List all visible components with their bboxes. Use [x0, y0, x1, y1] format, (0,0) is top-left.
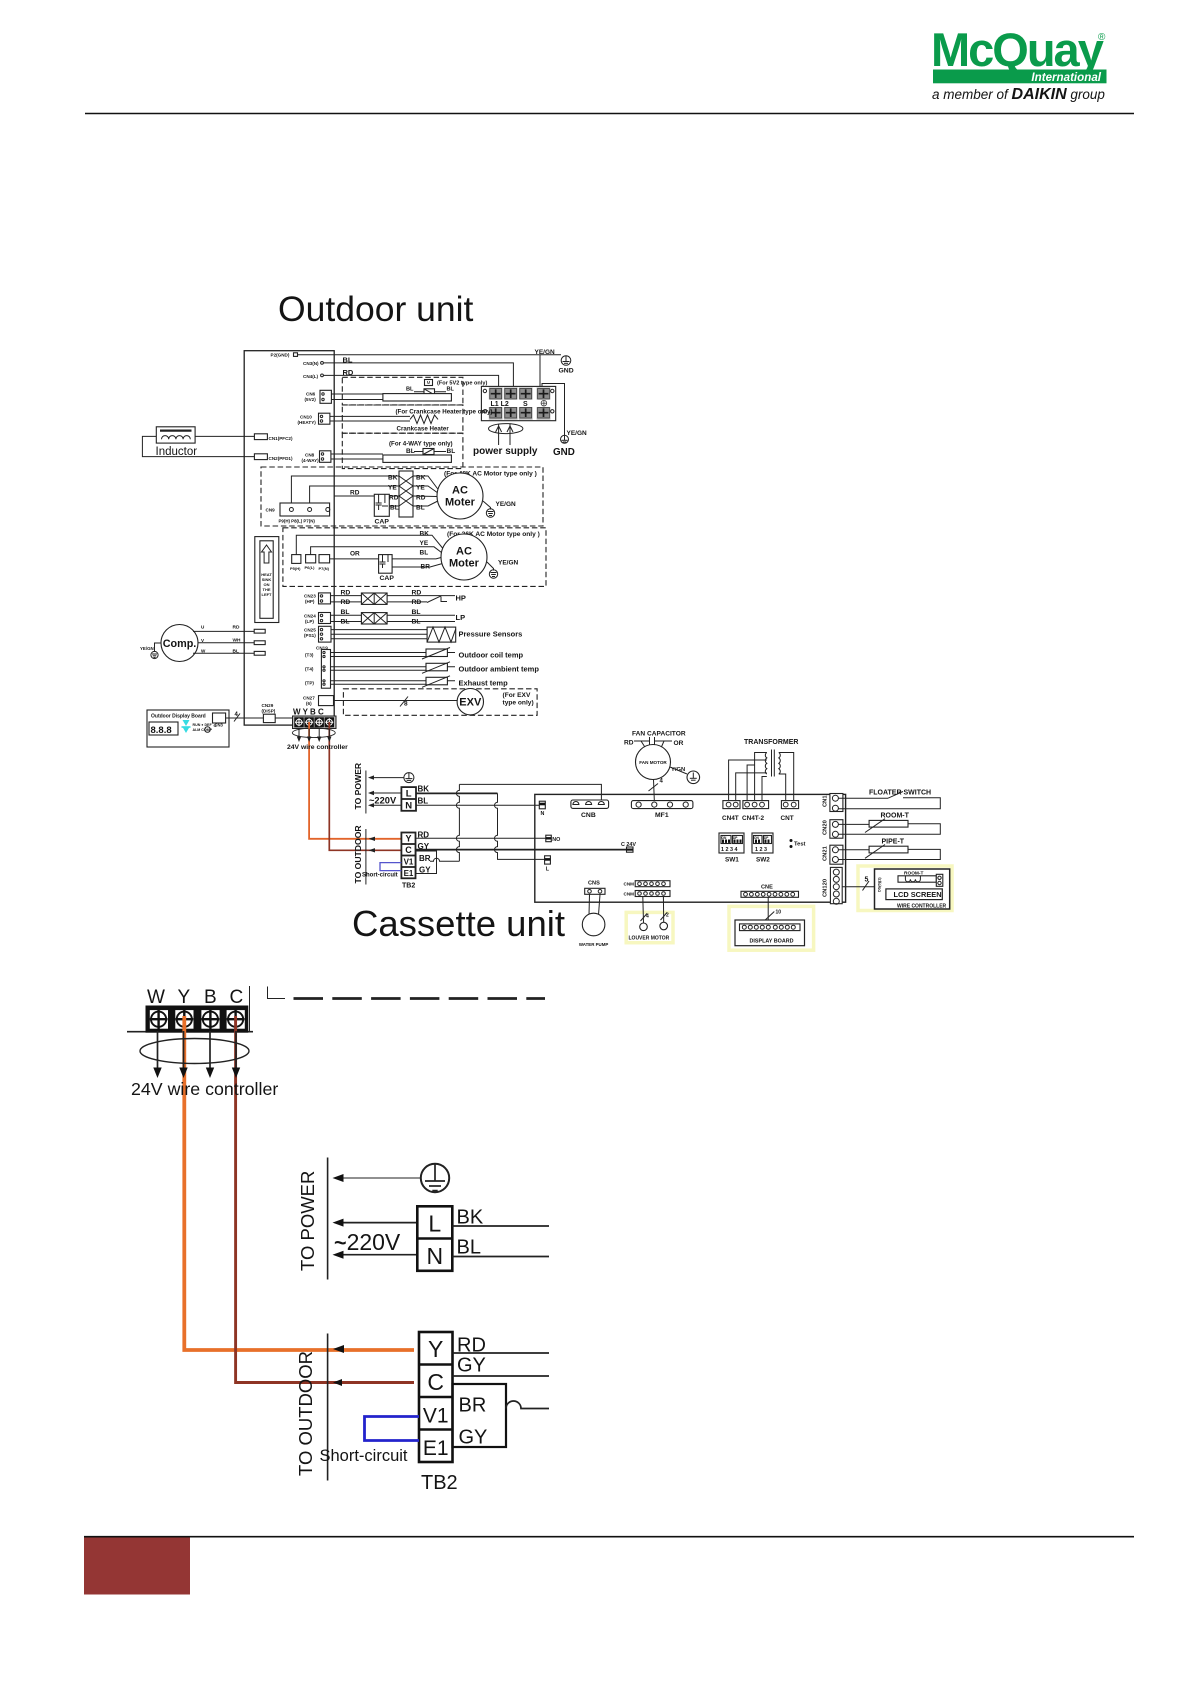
svg-text:P9(H) P8(L) P7(N): P9(H) P8(L) P7(N): [279, 519, 316, 524]
short-circuit link (blue, upper): [380, 863, 401, 871]
label Short-circuit (large): [320, 1447, 408, 1465]
wire RD (large): [453, 1352, 550, 1354]
svg-text:CN24: CN24: [304, 614, 316, 619]
Test points: [790, 839, 806, 848]
svg-text:RD: RD: [350, 490, 360, 497]
connector CN24(LP): [304, 613, 331, 625]
svg-text:LCD SCREEN: LCD SCREEN: [894, 890, 942, 899]
connector CN1: [823, 794, 843, 812]
DIP switch SW1: [719, 833, 744, 864]
svg-text:(T3): (T3): [305, 652, 314, 657]
TO POWER (large): [297, 1158, 328, 1280]
ground symbol (upper power): [368, 773, 414, 783]
svg-text:(TP): (TP): [305, 680, 314, 685]
connector CN20: [823, 820, 843, 839]
svg-text:10: 10: [776, 910, 782, 916]
svg-text:CN29: CN29: [262, 703, 274, 708]
compressor wires U V W: [193, 625, 265, 656]
svg-text:8: 8: [404, 701, 408, 708]
svg-text:YE/GN: YE/GN: [140, 646, 154, 651]
wire C down to cassette (dark red): [329, 722, 401, 850]
svg-text:TO POWER: TO POWER: [353, 762, 363, 809]
svg-text:RUN ● DEF: RUN ● DEF: [193, 723, 213, 727]
svg-text:(6): (6): [306, 701, 312, 706]
wire bus A to CNB: [459, 784, 601, 800]
thermistor TP exhaust temp: [305, 676, 508, 688]
labels BK BL (upper): [418, 785, 430, 806]
wire controller unit: [875, 869, 950, 909]
svg-text:4: 4: [660, 779, 664, 785]
svg-text:L: L: [428, 1211, 441, 1237]
svg-text:Comp.: Comp.: [163, 638, 197, 650]
svg-text:(HEATY): (HEATY): [298, 420, 317, 425]
header rule: [85, 113, 1134, 115]
svg-text:(LP): (LP): [305, 619, 314, 624]
svg-text:C: C: [405, 845, 412, 855]
svg-text:(PS1): (PS1): [304, 633, 316, 638]
dashed box (For 48K AC Motor type only): [261, 467, 543, 526]
svg-text:OR: OR: [350, 551, 360, 558]
svg-text:WATER PUMP: WATER PUMP: [579, 942, 609, 947]
McQuay logo: [931, 23, 1107, 103]
power supply terminal block TB1: [481, 386, 555, 420]
svg-text:(For EXV: (For EXV: [503, 692, 531, 699]
vertical bus A with hops: [456, 784, 459, 861]
labels RD GY BR GY (large): [457, 1335, 487, 1449]
label Short-circuit (upper): [362, 873, 398, 879]
wires cross block to AC motor 48K: [413, 476, 438, 506]
wire CNE to display board: [765, 897, 781, 920]
svg-text:(For 4-WAY type only): (For 4-WAY type only): [389, 440, 453, 447]
svg-text:McQuay: McQuay: [931, 23, 1104, 76]
wires 36K to motor: [296, 535, 442, 567]
svg-text:DISPLAY BOARD: DISPLAY BOARD: [750, 939, 794, 945]
label 24V wire controller (large): [131, 1079, 278, 1099]
svg-text:(5V2): (5V2): [305, 397, 317, 402]
svg-text:L: L: [406, 789, 412, 800]
svg-text:RD: RD: [233, 625, 240, 631]
svg-text:TO POWER: TO POWER: [297, 1171, 318, 1271]
svg-text:RD: RD: [389, 495, 399, 502]
fan motor cable to MF1: [649, 779, 664, 801]
heat sink indicator box: [255, 537, 279, 623]
svg-text:CN8: CN8: [305, 453, 315, 458]
svg-text:CNM: CNM: [624, 881, 635, 886]
svg-text:BL: BL: [406, 448, 415, 455]
svg-text:Test: Test: [794, 842, 806, 848]
svg-text:AC: AC: [452, 485, 468, 497]
divider line right of C: [249, 986, 251, 1031]
wire GY (upper) to C24V: [416, 849, 628, 851]
svg-text:C: C: [230, 987, 244, 1008]
svg-text:Outdoor Display Board: Outdoor Display Board: [151, 714, 206, 720]
wire CN29 to terminal: [275, 717, 294, 719]
wire GY (large): [453, 1375, 550, 1377]
AC motor M1 (48K): [437, 473, 483, 519]
wire BL from CN3 to terminal block: [324, 356, 514, 387]
thermistor ROOM-T: [838, 813, 940, 835]
wire block to right GND: [542, 384, 565, 437]
svg-text:CNM: CNM: [624, 891, 635, 896]
svg-text:CN1(PFC2): CN1(PFC2): [269, 436, 293, 441]
wire inductor to CN1(PFC2): [195, 435, 254, 437]
terminal letters W Y B C (large): [147, 987, 243, 1008]
svg-text:BR: BR: [459, 1395, 487, 1417]
outdoor terminal W Y B C: [293, 708, 337, 729]
fan motor ground: [670, 767, 700, 784]
connector CN4(L): [303, 374, 323, 379]
outdoor terminal arrows: [297, 729, 332, 743]
terminal arrows (large): [153, 1031, 240, 1078]
svg-text:Y: Y: [428, 1336, 443, 1362]
wire P2(GND) to GND YE/GN: [298, 354, 562, 356]
svg-text:~220V: ~220V: [334, 1229, 401, 1255]
svg-text:P7(N): P7(N): [319, 566, 330, 571]
svg-text:(4-WAY): (4-WAY): [302, 458, 320, 463]
svg-text:(For Crankcase Heater type onl: (For Crankcase Heater type only): [396, 409, 493, 416]
connector CN4T-2: [742, 801, 769, 822]
wire RD (upper) to NO stub: [416, 837, 546, 839]
svg-text:Cassette unit: Cassette unit: [352, 903, 565, 944]
connector CNB: [571, 800, 609, 819]
yellow highlight display board: [729, 906, 814, 950]
svg-text:GND: GND: [553, 447, 575, 458]
AC motor M2 (36K): [441, 534, 487, 580]
connector CN21: [823, 845, 843, 864]
svg-text:ROOM-T: ROOM-T: [881, 813, 910, 820]
connector CN25(PS1): [304, 626, 331, 642]
connector CN10(HEATY): [298, 413, 411, 425]
dashed stub line below cassette: [268, 987, 546, 999]
label YE/GN top: [535, 349, 556, 356]
svg-text:CN4T-2: CN4T-2: [742, 815, 764, 822]
svg-text:CN25: CN25: [304, 628, 316, 633]
svg-text:TB2: TB2: [402, 883, 415, 890]
svg-text:HP: HP: [456, 594, 466, 603]
stub NO on PCB: [546, 835, 560, 843]
svg-text:N: N: [541, 811, 545, 817]
svg-text:Short-circuit: Short-circuit: [320, 1447, 408, 1465]
svg-text:LOUVER MOTOR: LOUVER MOTOR: [629, 936, 670, 942]
svg-text:ON: ON: [722, 836, 727, 840]
ground GND right of power supply: [553, 435, 575, 458]
footer red block: [84, 1538, 190, 1595]
ellipse under outdoor terminal: [292, 728, 335, 738]
labels BK YE RD BL left of cross block: [388, 475, 399, 512]
louver motor: [629, 922, 670, 941]
display board: [735, 920, 805, 946]
wires CN9 to cross block: [291, 476, 399, 506]
svg-text:U: U: [201, 625, 205, 630]
wire BR with hump (large): [506, 1401, 549, 1409]
svg-text:E1: E1: [404, 869, 414, 878]
svg-text:MF1: MF1: [655, 812, 669, 819]
connector CN19: [316, 646, 331, 689]
vertical bus B with hops: [495, 793, 545, 859]
svg-text:CN21: CN21: [823, 845, 829, 861]
svg-text:B: B: [204, 987, 217, 1008]
connector CN4T: [722, 801, 740, 822]
ground symbol (large power): [333, 1164, 450, 1192]
svg-text:TB2: TB2: [421, 1472, 458, 1494]
dashed box (For EXV type only): [334, 689, 538, 716]
svg-text:W: W: [201, 649, 206, 654]
svg-text:CN4T: CN4T: [722, 815, 739, 822]
display board 4-wire bus: [226, 712, 264, 722]
pressure sensor wires: [331, 627, 522, 642]
arrows to power L N (large): [333, 1219, 418, 1259]
connector CN6(5V2): [305, 390, 383, 403]
svg-text:GY: GY: [457, 1355, 486, 1377]
connector MF1: [631, 801, 693, 819]
svg-text:BR: BR: [421, 564, 431, 571]
svg-text:SW1: SW1: [725, 857, 739, 864]
svg-text:GND: GND: [559, 368, 574, 375]
svg-text:N: N: [426, 1243, 443, 1269]
svg-text:8.8.8: 8.8.8: [151, 725, 172, 736]
svg-text:Outdoor ambient temp: Outdoor ambient temp: [459, 664, 540, 673]
svg-text:L: L: [546, 867, 550, 873]
connector CN3 on display board: [213, 713, 226, 728]
svg-text:YE/GN: YE/GN: [567, 430, 588, 437]
svg-text:BL: BL: [406, 387, 414, 393]
arrows to outdoor (large): [333, 1345, 344, 1386]
svg-text:a member of DAIKIN group: a member of DAIKIN group: [932, 86, 1105, 103]
wire CN120 to wire controller: [842, 877, 874, 891]
transformer TR1: [729, 739, 799, 800]
svg-text:WIRE CONTROLLER: WIRE CONTROLLER: [897, 903, 947, 909]
svg-text:CN4(L): CN4(L): [303, 374, 319, 379]
wire BK (upper): [416, 792, 498, 794]
stub C 24V on PCB: [621, 842, 636, 852]
wire BL (upper) to N stub: [416, 804, 539, 806]
svg-text:1 2 3: 1 2 3: [755, 847, 767, 853]
svg-text:(T4): (T4): [305, 667, 314, 672]
svg-text:TRANSFORMER: TRANSFORMER: [744, 739, 798, 746]
connector CN120: [823, 867, 843, 904]
svg-text:L1 L2: L1 L2: [491, 401, 509, 408]
svg-text:S: S: [523, 401, 528, 408]
LP pressure switch wires: [331, 609, 466, 626]
svg-text:Y: Y: [405, 834, 411, 844]
svg-text:TO OUTDOOR: TO OUTDOOR: [295, 1351, 316, 1476]
connector CNS: [585, 881, 605, 895]
svg-text:BR: BR: [419, 854, 431, 863]
svg-text:CNS: CNS: [588, 881, 600, 887]
wire RD from CN4 to terminal block: [324, 368, 499, 386]
svg-text:YE: YE: [388, 485, 397, 492]
svg-text:RD: RD: [412, 599, 422, 606]
svg-text:BK: BK: [418, 785, 430, 794]
TO OUTDOOR (upper): [353, 825, 366, 885]
svg-text:LEFT: LEFT: [262, 592, 273, 597]
svg-text:CN1: CN1: [823, 795, 829, 807]
svg-text:ON: ON: [754, 836, 759, 840]
connector CNT: [781, 801, 799, 822]
svg-text:Short-circuit: Short-circuit: [362, 873, 398, 879]
svg-text:BL: BL: [418, 797, 429, 806]
svg-text:Outdoor unit: Outdoor unit: [278, 289, 474, 329]
svg-text:BK: BK: [420, 531, 430, 538]
svg-text:24V wire controller: 24V wire controller: [131, 1079, 278, 1099]
svg-text:FAN MOTOR: FAN MOTOR: [639, 760, 667, 765]
svg-text:SW2: SW2: [756, 857, 770, 864]
label ~220V (large): [334, 1229, 401, 1255]
DIP switch SW2: [752, 833, 773, 864]
svg-text:YE/GN: YE/GN: [535, 349, 556, 356]
svg-text:(HP): (HP): [305, 599, 315, 604]
svg-text:4: 4: [646, 914, 649, 920]
svg-text:CN20: CN20: [823, 820, 829, 835]
svg-text:E1: E1: [423, 1437, 449, 1460]
svg-text:P6(L): P6(L): [305, 565, 316, 570]
svg-text:BL: BL: [390, 505, 399, 512]
connector CN8(4-WAY): [302, 451, 383, 463]
connector CN27(6): [303, 696, 334, 707]
TO OUTDOOR (large): [295, 1334, 328, 1481]
wires CNM to louver motor: [641, 897, 670, 924]
svg-text:V1: V1: [423, 1405, 449, 1428]
fan capacitor: [624, 731, 686, 750]
svg-text:Pressure Sensors: Pressure Sensors: [459, 630, 523, 639]
svg-text:CN9: CN9: [266, 508, 276, 513]
thermistor T4 outdoor ambient temp: [305, 662, 539, 674]
svg-text:2: 2: [666, 913, 669, 919]
svg-text:BL: BL: [420, 550, 429, 557]
svg-text:(DISP): (DISP): [262, 709, 276, 714]
power supply ellipse: [489, 424, 523, 434]
svg-text:P2(GND): P2(GND): [271, 353, 290, 358]
power supply arrows: [496, 424, 513, 445]
svg-text:power supply: power supply: [473, 446, 538, 457]
ellipse under terminal (large): [140, 1039, 249, 1064]
svg-text:YE/GN: YE/GN: [498, 560, 519, 567]
svg-text:Moter: Moter: [445, 497, 476, 509]
terminal L/N (large): [417, 1206, 452, 1271]
svg-text:CN6: CN6: [306, 392, 316, 397]
wire YE/GN drop to terminal block: [539, 355, 541, 387]
svg-text:24V wire controller: 24V wire controller: [287, 744, 348, 751]
yellow highlight louver motor: [626, 912, 673, 942]
svg-text:CN27: CN27: [303, 696, 315, 701]
label 24V wire controller (outdoor): [287, 744, 348, 751]
ground of motor 36K: [487, 560, 519, 579]
svg-text:CAP: CAP: [375, 519, 390, 526]
wire inductor to CN2(PFD1): [142, 436, 254, 456]
svg-text:Outdoor coil temp: Outdoor coil temp: [459, 650, 524, 659]
outdoor display board: [147, 710, 229, 747]
terminal TB2 (large) Y C V1 E1: [419, 1332, 458, 1494]
HP pressure switch wires: [331, 590, 466, 607]
svg-text:®: ®: [1098, 32, 1106, 43]
svg-text:BK: BK: [388, 475, 398, 482]
labels BK BL (large): [457, 1207, 484, 1259]
compressor Comp.: [161, 625, 198, 662]
inductor L1: [156, 427, 198, 458]
short-circuit link (blue, large): [365, 1417, 420, 1441]
svg-text:CN3(N): CN3(N): [303, 361, 319, 366]
labels BK YE BL BR 36K: [420, 531, 431, 571]
connector CN23(HP): [304, 593, 331, 604]
connector CN9: [266, 503, 330, 524]
svg-text:CN3: CN3: [215, 723, 224, 728]
svg-text:EXV: EXV: [459, 697, 482, 709]
terminal block (large): [127, 1006, 253, 1033]
plug loop box (upper): [416, 851, 437, 874]
svg-text:CN120: CN120: [823, 879, 829, 897]
dashed box (For Crankcase Heater type only): [342, 405, 492, 433]
svg-text:N: N: [405, 801, 412, 812]
arrows to power (upper): [368, 791, 401, 808]
ground GND top-right: [559, 356, 574, 375]
svg-text:GY: GY: [459, 1427, 488, 1449]
svg-text:AC: AC: [456, 546, 472, 558]
thermistor PIPE-T: [838, 839, 940, 860]
stub N on PCB: [539, 801, 545, 817]
svg-text:RD: RD: [416, 495, 426, 502]
connectors P5(H) P6(L) P7(N): [290, 555, 330, 571]
svg-text:YE: YE: [420, 540, 429, 547]
svg-text:Crankcase Heater: Crankcase Heater: [397, 426, 450, 433]
svg-text:CN2(PFD1): CN2(PFD1): [269, 456, 293, 461]
node P2(GND): [271, 353, 298, 358]
label ~220V (upper): [369, 796, 397, 806]
wire BR (upper): [430, 858, 459, 861]
connector CN2(PFD1): [254, 454, 293, 461]
svg-text:Moter: Moter: [449, 558, 480, 570]
wire CNS to water pump: [589, 894, 600, 915]
connector CN1(PFC2): [254, 434, 293, 441]
label YE/GN right: [567, 430, 588, 437]
label power supply: [473, 446, 538, 457]
svg-text:1 2 3 4: 1 2 3 4: [721, 847, 738, 853]
svg-text:CN23: CN23: [304, 594, 316, 599]
yellow highlight wire controller: [858, 866, 952, 911]
svg-text:PIPE-T: PIPE-T: [882, 839, 905, 846]
svg-text:DS(0)(1): DS(0)(1): [878, 877, 882, 892]
ground of motor 48K: [483, 501, 516, 517]
plug loop box (large): [453, 1384, 507, 1447]
wire BL (large): [452, 1256, 549, 1258]
svg-text:P5(H): P5(H): [290, 566, 301, 571]
connector CN3(N): [303, 361, 323, 366]
svg-text:OR: OR: [674, 740, 684, 747]
wire Y down (orange, large): [184, 1016, 414, 1350]
svg-text:W Y B C: W Y B C: [293, 708, 324, 717]
svg-text:LP: LP: [456, 613, 466, 622]
svg-text:International: International: [1031, 71, 1101, 84]
svg-text:YE/GN: YE/GN: [496, 501, 517, 508]
outdoor main PCB outline: [244, 351, 334, 725]
cassette PCB outline: [535, 794, 846, 902]
svg-text:V1: V1: [404, 858, 414, 867]
svg-text:CNE: CNE: [761, 884, 773, 890]
svg-text:Exhaust temp: Exhaust temp: [459, 678, 509, 687]
svg-text:RD: RD: [624, 740, 634, 747]
svg-text:CN10: CN10: [300, 415, 312, 420]
svg-text:(For 5V2 type only): (For 5V2 type only): [437, 381, 487, 387]
svg-text:FAN CAPACITOR: FAN CAPACITOR: [632, 731, 686, 738]
svg-text:CNB: CNB: [581, 812, 596, 819]
svg-text:Y: Y: [178, 987, 191, 1008]
footer rule: [84, 1536, 1134, 1538]
svg-text:C: C: [427, 1369, 444, 1395]
dashed box (For 4-WAY type only): [342, 433, 463, 468]
wire Y down to cassette (orange): [309, 722, 401, 839]
TO POWER (upper): [353, 762, 366, 813]
ground of compressor: [140, 643, 161, 659]
connector CN29(DISP): [262, 703, 276, 723]
